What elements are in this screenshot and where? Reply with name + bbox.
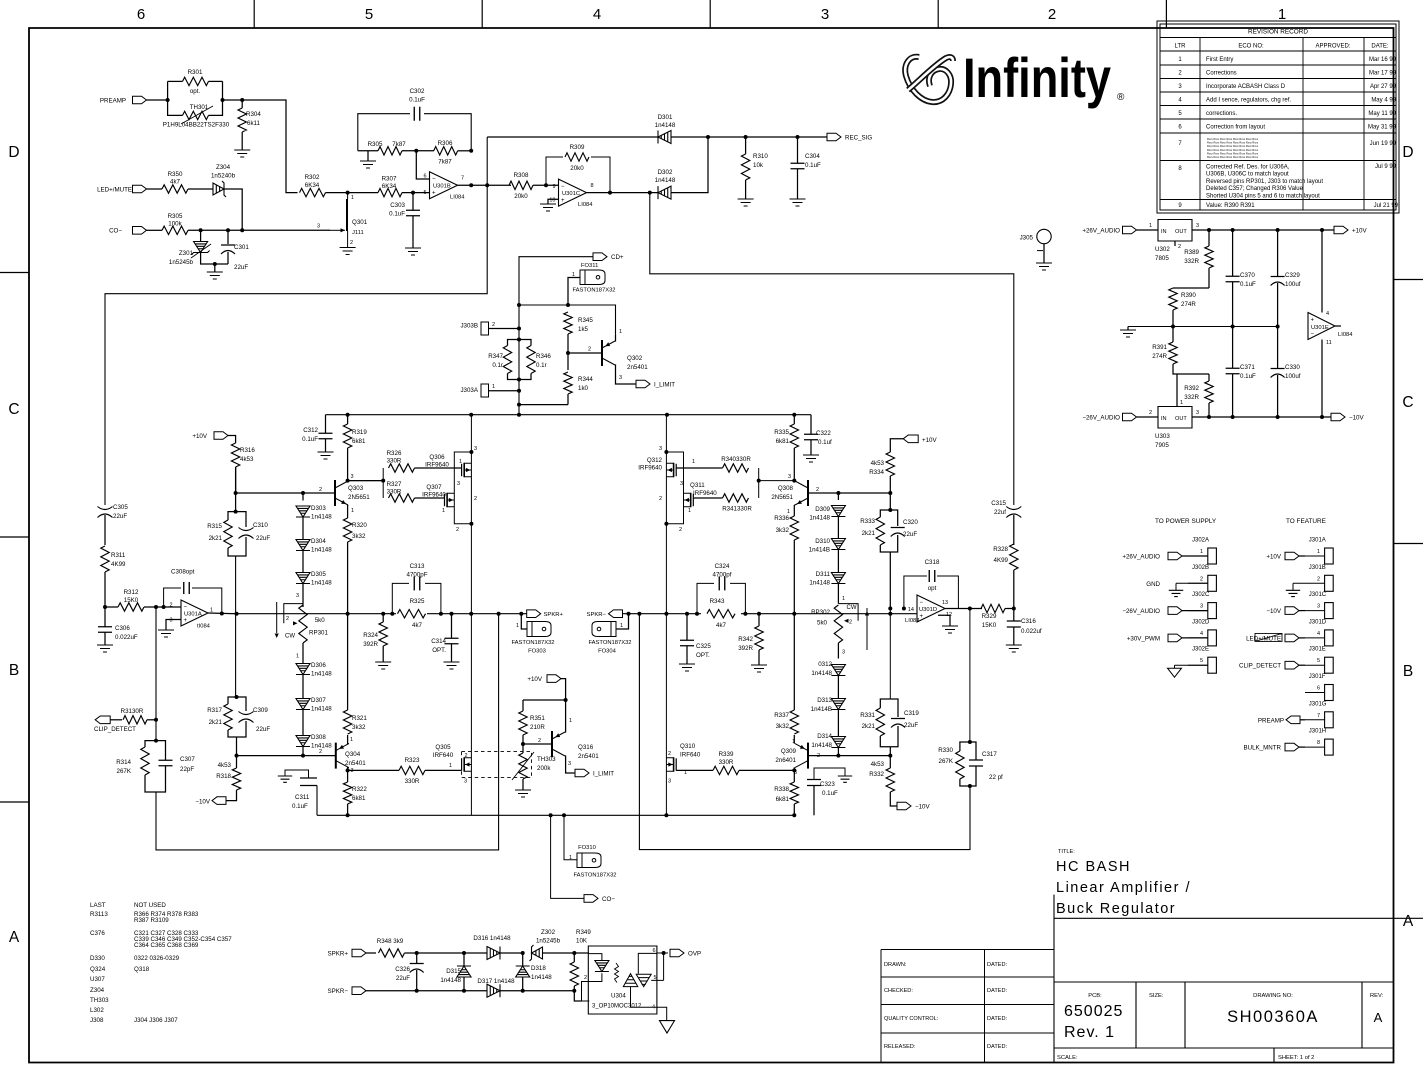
wire C323 top: [814, 768, 845, 780]
svg-text:+10V: +10V: [922, 437, 937, 444]
node: [1276, 228, 1280, 232]
wire: [508, 340, 520, 346]
svg-text:332R: 332R: [1184, 258, 1199, 265]
svg-text:R305: R305: [368, 141, 383, 148]
svg-text:L302: L302: [90, 1007, 104, 1014]
svg-text:OPT.: OPT.: [696, 652, 710, 659]
optocoupler U304 box: [588, 946, 657, 1014]
svg-text:D310: D310: [815, 538, 830, 545]
svg-text:1n4148: 1n4148: [311, 547, 332, 554]
svg-text:22uF: 22uF: [256, 535, 270, 542]
svg-text:DATED:: DATED:: [987, 1016, 1008, 1022]
svg-text:R326: R326: [387, 450, 402, 457]
connector OVP: [670, 949, 684, 957]
ground: [340, 248, 356, 255]
svg-text:FASTON187X32: FASTON187X32: [511, 640, 554, 646]
title block: [1054, 895, 1394, 1063]
ground: [838, 776, 852, 782]
svg-text:J302D: J302D: [1192, 619, 1210, 625]
svg-text:650025: 650025: [1064, 1003, 1123, 1020]
svg-text:2: 2: [538, 738, 541, 744]
svg-text:14: 14: [908, 607, 914, 613]
diode D304: [296, 540, 310, 551]
wire: [366, 990, 464, 992]
connector J303B box: [481, 322, 489, 335]
wire C311 top: [285, 770, 309, 778]
connector +10V: [214, 432, 228, 440]
wire: [104, 633, 106, 646]
wire: [451, 644, 453, 662]
connector FO303 faston: [527, 622, 551, 637]
wire: [302, 710, 304, 736]
diode D308: [296, 736, 310, 747]
wire: [837, 493, 839, 500]
svg-text:HC BASH: HC BASH: [1056, 859, 1131, 875]
revision table outer box: [1157, 21, 1399, 213]
wire: [1182, 610, 1208, 612]
svg-text:J303A: J303A: [460, 387, 478, 394]
svg-text:Q305: Q305: [435, 744, 451, 751]
svg-text:C303: C303: [390, 202, 405, 209]
node: [1207, 415, 1211, 419]
wire clip column: [155, 607, 157, 741]
svg-text:CHECKED:: CHECKED:: [884, 988, 913, 994]
svg-text:SIZE:: SIZE:: [1149, 993, 1164, 999]
wire i-limit top row: [519, 305, 616, 335]
connector J302A: [1208, 548, 1217, 564]
capacitor C326: [410, 964, 424, 973]
svg-text:DATED:: DATED:: [987, 988, 1008, 994]
wire: [366, 952, 376, 954]
node: [562, 813, 566, 817]
mosfet Q311 IRF9640: [690, 493, 692, 507]
svg-text:Z301: Z301: [179, 250, 194, 257]
wire: [837, 748, 839, 756]
svg-text:J302B: J302B: [1192, 565, 1209, 571]
ground: [278, 776, 292, 782]
capacitor C330: [1271, 369, 1285, 378]
svg-text:CD+: CD+: [611, 254, 624, 261]
optocoupler U304 hatch: [615, 963, 619, 983]
svg-text:C310: C310: [253, 522, 268, 529]
diode D306: [296, 664, 310, 675]
wire: [1305, 555, 1325, 557]
svg-text:1: 1: [492, 384, 495, 390]
thermistor TH303 strike: [512, 752, 534, 780]
svg-text:2: 2: [474, 496, 477, 502]
wire: [1305, 664, 1325, 666]
svg-text:1: 1: [569, 855, 572, 861]
svg-text:D314: D314: [817, 733, 832, 740]
wire: [1277, 230, 1279, 276]
wire: [236, 756, 238, 768]
svg-text:C305: C305: [113, 504, 128, 511]
wire: [228, 730, 237, 737]
svg-text:1: 1: [449, 763, 452, 769]
svg-text:22uF: 22uF: [256, 726, 270, 733]
svg-text:5: 5: [1317, 658, 1320, 664]
ground: [790, 199, 806, 206]
resistor R392: [1205, 381, 1213, 403]
svg-text:2: 2: [286, 616, 289, 622]
svg-text:Rxxx Rxxx Rxxx Rxxx Rxxx Rxxx: Rxxx Rxxx Rxxx Rxxx Rxxx Rxxx Rxxx Rxxx: [1207, 144, 1259, 148]
node: [1171, 325, 1175, 329]
resistor R334: [886, 452, 894, 476]
wire: [1277, 283, 1279, 327]
wire: [1277, 327, 1279, 369]
zone tick: [0, 801, 29, 803]
svg-text:TH301: TH301: [190, 104, 209, 111]
svg-text:C312: C312: [303, 427, 318, 434]
svg-text:C364 C365 C368 C369: C364 C365 C368 C369: [134, 942, 199, 949]
svg-text:0.1uF: 0.1uF: [292, 803, 308, 810]
svg-text:4k53: 4k53: [871, 761, 885, 768]
svg-text:R340330R: R340330R: [721, 456, 751, 463]
svg-text:3: 3: [568, 761, 571, 767]
svg-text:+: +: [920, 614, 924, 620]
svg-text:2: 2: [492, 322, 495, 328]
resistor R344: [564, 372, 572, 394]
wire: [508, 374, 520, 380]
wire: [523, 699, 566, 701]
wire: [1174, 241, 1176, 246]
svg-text:0.022uf: 0.022uf: [1021, 628, 1042, 635]
wire: [156, 766, 166, 792]
svg-text:7: 7: [1317, 713, 1320, 719]
connector -10V left: [212, 797, 226, 805]
node: [346, 768, 350, 772]
node: [517, 378, 521, 382]
svg-text:First Entry: First Entry: [1206, 57, 1233, 63]
wire: [500, 990, 574, 992]
svg-text:3: 3: [659, 446, 662, 452]
node: [517, 338, 521, 342]
svg-text:6: 6: [423, 174, 426, 180]
svg-text:C376: C376: [90, 930, 105, 937]
node: [888, 612, 892, 616]
svg-text:C314: C314: [431, 638, 446, 645]
svg-text:C302: C302: [410, 88, 425, 95]
svg-text:Rev. 1: Rev. 1: [1064, 1024, 1115, 1041]
wire: [463, 953, 465, 966]
svg-text:tI084: tI084: [197, 624, 211, 630]
node: [1276, 415, 1280, 419]
node: [521, 951, 525, 955]
svg-text:8: 8: [591, 183, 594, 189]
connector +10V out: [1334, 226, 1348, 234]
capacitor C315: [1006, 507, 1021, 518]
wire: [347, 448, 349, 481]
wire: [147, 719, 156, 721]
wire: [235, 467, 237, 512]
svg-text:CLIP_DETECT: CLIP_DETECT: [1239, 663, 1281, 670]
svg-text:TO FEATURE: TO FEATURE: [1286, 518, 1326, 525]
svg-text:DRAWING NO:: DRAWING NO:: [1253, 993, 1293, 999]
node: [757, 612, 761, 616]
wire: [945, 608, 982, 610]
svg-text:−: −: [561, 184, 565, 190]
resistor R311: [101, 546, 109, 572]
svg-text:R350: R350: [168, 171, 183, 178]
mosfet Q310 IRF640: [673, 757, 675, 771]
wire: [1188, 637, 1208, 639]
svg-text:6k81: 6k81: [776, 796, 790, 803]
svg-text:1: 1: [1317, 549, 1320, 555]
transistor Q308: [807, 480, 809, 506]
svg-text:DRAWN:: DRAWN:: [884, 962, 907, 968]
svg-text:May 4 99: May 4 99: [1371, 98, 1396, 104]
svg-text:2: 2: [1178, 244, 1181, 250]
svg-text:+: +: [432, 191, 436, 197]
svg-text:C325: C325: [696, 643, 711, 650]
node: [637, 612, 641, 616]
svg-text:R321: R321: [352, 715, 367, 722]
svg-text:−: −: [1311, 331, 1315, 337]
svg-text:2k21: 2k21: [862, 530, 876, 537]
svg-text:1: 1: [842, 596, 845, 602]
connector J303A box: [481, 384, 489, 397]
svg-text:C326: C326: [395, 966, 410, 973]
node: [103, 605, 107, 609]
svg-text:LAST: LAST: [90, 902, 106, 909]
svg-text:1: 1: [1278, 6, 1286, 23]
svg-text:C308opt: C308opt: [171, 569, 195, 576]
ground triangle: [1168, 668, 1182, 677]
connector PREAMP: [133, 96, 147, 104]
svg-text:Linear Amplifier /: Linear Amplifier /: [1056, 880, 1191, 896]
resistor R351: [519, 711, 527, 735]
svg-text:R387 R3109: R387 R3109: [134, 917, 169, 924]
svg-text:R318: R318: [216, 773, 231, 780]
wire: [522, 779, 524, 790]
wire: [793, 540, 795, 614]
wire: [458, 150, 472, 152]
wire: [358, 150, 378, 152]
wire: [188, 188, 213, 190]
resistor R324: [379, 622, 387, 646]
wire: [200, 230, 202, 241]
svg-text:2: 2: [1149, 410, 1152, 416]
svg-text:4k7: 4k7: [412, 622, 423, 629]
svg-text:5k0: 5k0: [315, 617, 326, 624]
svg-text:4k53: 4k53: [240, 456, 254, 463]
svg-text:U301B: U301B: [433, 184, 451, 190]
node: [1207, 228, 1211, 232]
wire CO- drop: [551, 815, 584, 898]
node: [346, 813, 350, 817]
connector -10V out: [1331, 413, 1345, 421]
wire: [347, 415, 349, 424]
wire: [1013, 515, 1015, 545]
svg-text:R307: R307: [382, 176, 397, 183]
svg-text:IN: IN: [1161, 229, 1167, 235]
capacitor C313: [414, 576, 420, 590]
wire: [1127, 327, 1129, 331]
svg-text:R322: R322: [352, 786, 367, 793]
svg-text:IRF9640: IRF9640: [693, 490, 717, 497]
node: [1320, 228, 1324, 232]
svg-text:Q316: Q316: [578, 744, 594, 751]
wire: [880, 510, 890, 517]
transistor Q301 J111: [346, 199, 348, 231]
connector J305 circle: [1037, 229, 1051, 243]
capacitor C305: [98, 507, 113, 518]
ground: [97, 645, 113, 652]
wire: [1300, 719, 1305, 721]
wire: [228, 548, 236, 556]
svg-text:D317 1n4148: D317 1n4148: [477, 978, 515, 985]
svg-text:LI084: LI084: [450, 195, 465, 201]
svg-text:7805: 7805: [1155, 255, 1169, 262]
wire: [402, 150, 434, 152]
svg-text:6K34: 6K34: [382, 183, 397, 190]
svg-text:1: 1: [351, 195, 354, 201]
svg-text:J301A: J301A: [1309, 538, 1326, 544]
svg-text:6: 6: [1317, 686, 1320, 692]
wire: [227, 230, 229, 244]
wire REC feedback: [105, 137, 487, 505]
ground: [1286, 590, 1300, 596]
wire: [837, 643, 839, 659]
wire: [522, 735, 524, 744]
title block left table: [881, 950, 1054, 1063]
svg-text:J301E: J301E: [1309, 647, 1326, 653]
wire: [889, 756, 891, 768]
regulator U303 7905: [1158, 407, 1192, 429]
wire: [1305, 692, 1325, 694]
svg-text:22pF: 22pF: [180, 766, 194, 773]
svg-text:R334: R334: [869, 469, 884, 476]
svg-text:0.1uF: 0.1uF: [1240, 281, 1256, 288]
wire gate bus right: [759, 468, 795, 498]
svg-text:PREAMP: PREAMP: [1258, 717, 1284, 724]
wire: [890, 726, 898, 747]
resistor R304: [238, 108, 246, 132]
svg-text:R389: R389: [1184, 249, 1199, 256]
svg-text:1: 1: [1180, 400, 1183, 406]
wire: [890, 535, 897, 552]
capacitor C309: [239, 712, 254, 723]
wire: [412, 216, 414, 248]
wire: [104, 515, 106, 545]
svg-text:2N5651: 2N5651: [348, 494, 370, 501]
potentiometer RP302 wiper: [838, 604, 858, 621]
connector −26V_AUDIO: [1168, 607, 1182, 615]
svg-text:4: 4: [652, 1005, 655, 1011]
svg-text:OUT: OUT: [1175, 229, 1187, 235]
node: [902, 607, 906, 611]
svg-text:Q302: Q302: [627, 355, 643, 362]
svg-text:−: −: [184, 605, 188, 611]
wire gnd row: [1128, 326, 1278, 328]
capacitor C306: [98, 627, 112, 633]
resistor R339: [713, 766, 739, 774]
wire: [810, 415, 812, 434]
svg-text:1: 1: [442, 508, 445, 514]
svg-text:LTR: LTR: [1175, 44, 1187, 50]
connector REC_SIG: [827, 133, 841, 141]
wire: [522, 744, 524, 753]
wire: [1232, 374, 1234, 417]
svg-text:R320: R320: [352, 522, 367, 529]
wire: [522, 700, 524, 711]
svg-text:R306: R306: [438, 140, 453, 147]
regulator U302 7805: [1158, 220, 1192, 242]
svg-text:22uf: 22uf: [994, 509, 1006, 516]
wire: [686, 614, 688, 640]
wire: [519, 374, 531, 380]
zone tick: [1394, 543, 1423, 545]
resistor R315: [224, 520, 232, 548]
svg-text:1n5245b: 1n5245b: [536, 938, 561, 945]
svg-text:R328: R328: [993, 546, 1008, 553]
connector +10V q316: [547, 675, 561, 683]
wire: [1173, 364, 1209, 374]
resistor R305fb: [378, 147, 402, 155]
node: [836, 491, 840, 495]
svg-text:15K0: 15K0: [982, 622, 997, 629]
svg-text:1n4148: 1n4148: [811, 670, 832, 677]
node: [234, 510, 238, 514]
zone tick: [0, 272, 29, 274]
svg-text:Z304: Z304: [216, 164, 231, 171]
svg-text:SPKR−: SPKR−: [328, 988, 349, 995]
wire: [676, 467, 722, 469]
svg-text:D301: D301: [658, 114, 673, 121]
capacitor C324 box: [697, 583, 745, 613]
svg-text:22uF: 22uF: [396, 975, 410, 982]
svg-text:22uF: 22uF: [904, 722, 918, 729]
svg-text:2n6401: 2n6401: [775, 757, 796, 764]
node: [462, 989, 466, 993]
svg-text:1: 1: [350, 737, 353, 743]
wire: [145, 741, 156, 747]
wire: [960, 779, 970, 786]
svg-text:R314: R314: [116, 759, 131, 766]
svg-text:0.1uF: 0.1uF: [409, 97, 425, 104]
capacitor C302: [414, 107, 420, 121]
svg-text:0.1uf: 0.1uf: [818, 439, 832, 446]
wire: [236, 537, 246, 556]
svg-text:RP302: RP302: [811, 609, 830, 616]
wire: [348, 769, 399, 771]
wire: [522, 977, 524, 991]
node: [469, 183, 473, 187]
connector LED+/MUTE: [133, 185, 147, 193]
node: [664, 813, 668, 817]
svg-text:Rxxx Rxxx Rxxx Rxxx Rxxx Rxxx: Rxxx Rxxx Rxxx Rxxx Rxxx Rxxx Rxxx Rxxx: [1207, 141, 1259, 145]
node: [792, 479, 796, 483]
svg-text:D: D: [1402, 144, 1413, 161]
resistor R347: [503, 346, 511, 374]
connector CO-: [133, 227, 147, 235]
svg-text:R343: R343: [710, 598, 725, 605]
ground: [803, 455, 819, 462]
node: [664, 612, 668, 616]
resistor R319: [343, 424, 351, 448]
revision table box: [1160, 24, 1396, 210]
svg-text:U301D: U301D: [919, 607, 937, 613]
optocoupler U304 LED: [595, 961, 609, 972]
node: [792, 413, 796, 417]
resistor R327: [389, 494, 415, 502]
svg-text:267K: 267K: [939, 758, 954, 765]
resistor R332: [886, 768, 894, 792]
wire: [347, 505, 349, 506]
svg-text:−: −: [920, 600, 924, 606]
node: [517, 327, 521, 331]
ground: [942, 626, 958, 633]
